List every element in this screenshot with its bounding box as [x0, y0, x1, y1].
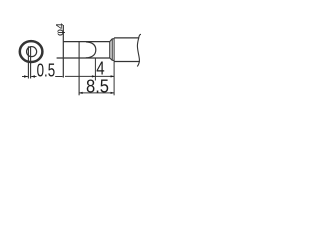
svg-text:0.5: 0.5	[37, 60, 56, 81]
svg-text:φ4: φ4	[55, 23, 66, 36]
svg-text:4: 4	[96, 58, 104, 79]
